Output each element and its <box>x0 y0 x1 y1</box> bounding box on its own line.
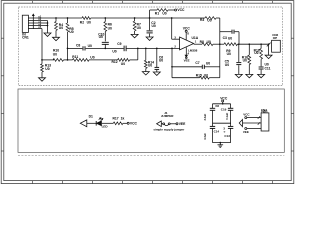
capacitor C9 <box>86 47 124 49</box>
terminal VCC1 <box>175 9 177 11</box>
capacitor C2 <box>149 18 151 30</box>
wire port-led <box>87 122 96 124</box>
svg-text:C14: C14 <box>214 129 220 133</box>
ground G4 <box>39 78 46 81</box>
svg-text:VEE: VEE <box>179 122 186 126</box>
svg-text:U0: U0 <box>207 18 211 22</box>
jumper J1 <box>161 123 163 125</box>
svg-text:U0: U0 <box>204 73 208 77</box>
svg-text:simple supply jumper: simple supply jumper <box>153 127 185 131</box>
svg-text:U0: U0 <box>228 36 232 40</box>
svg-text:VEE: VEE <box>243 130 249 134</box>
connector CN3 <box>261 113 269 131</box>
resistor R10 <box>53 59 64 62</box>
opamp vee pin4 <box>185 47 187 55</box>
opamp vcc pin8 <box>185 30 187 32</box>
svg-text:VCC: VCC <box>130 122 138 126</box>
svg-text:8: 8 <box>187 32 189 36</box>
ground G2 <box>53 37 60 40</box>
resistor R1 <box>157 9 168 12</box>
node pins join <box>47 21 49 34</box>
svg-text:VCC: VCC <box>177 8 185 12</box>
resistor R9 <box>224 43 238 46</box>
resistor R5 <box>67 18 69 23</box>
svg-text:U1A: U1A <box>192 36 199 40</box>
wire2 up <box>137 48 139 60</box>
resistor R15 <box>172 77 200 79</box>
svg-text:U0: U0 <box>225 63 229 67</box>
junction R5 <box>67 17 69 19</box>
resistor R14 <box>145 48 147 60</box>
svg-text:OP: OP <box>273 36 277 40</box>
capacitor C12 <box>210 107 215 109</box>
svg-text:R3: R3 <box>200 18 204 22</box>
svg-text:1: 1 <box>195 40 197 44</box>
resistor R13 <box>41 60 43 64</box>
svg-text:U0: U0 <box>207 40 211 44</box>
svg-text:U0: U0 <box>206 61 210 65</box>
resistor R7 <box>134 18 136 21</box>
svg-text:CN1: CN1 <box>22 36 29 40</box>
svg-text:R15: R15 <box>196 73 202 77</box>
svg-text:U0: U0 <box>112 49 116 53</box>
amplifier section box <box>18 7 282 86</box>
svg-text:C13: C13 <box>224 134 230 138</box>
feedback right <box>219 44 221 77</box>
CN3 bottom pin <box>245 128 247 130</box>
wire pin5 input <box>28 28 42 30</box>
svg-text:C19: C19 <box>221 108 227 112</box>
resistor R17 <box>102 122 114 124</box>
svg-text:JUMPER: JUMPER <box>161 114 174 118</box>
ground G6 <box>153 72 160 75</box>
svg-text:D1: D1 <box>89 114 93 118</box>
capacitor C13 <box>228 125 233 127</box>
capacitor C10 <box>102 41 109 43</box>
capacitor C8 <box>68 47 83 49</box>
junction R4 <box>55 17 57 19</box>
junction R1 <box>149 17 151 19</box>
resistor R2 <box>82 17 91 20</box>
wire pin2 <box>28 20 47 22</box>
svg-text:0.1uF: 0.1uF <box>225 112 229 119</box>
svg-text:D2: D2 <box>216 104 220 108</box>
svg-text:R17: R17 <box>113 117 119 121</box>
plug arrow <box>239 120 242 127</box>
svg-text:U0: U0 <box>59 26 63 30</box>
port P2 <box>157 121 162 127</box>
capacitor C10b <box>228 107 233 109</box>
resistor R4 <box>55 18 57 22</box>
ground G3 <box>131 34 138 37</box>
connector CN1 <box>22 15 28 32</box>
svg-text:C8: C8 <box>76 44 80 48</box>
feedback left <box>171 48 173 77</box>
svg-text:U0: U0 <box>243 59 247 63</box>
junction out <box>219 43 221 45</box>
capacitor C7 <box>172 66 202 68</box>
ground GND reg <box>219 143 221 145</box>
port P1 <box>80 120 87 127</box>
svg-text:U0: U0 <box>90 55 94 59</box>
power section box <box>18 89 284 152</box>
svg-text:U0: U0 <box>137 26 141 30</box>
junction R6 <box>104 17 106 19</box>
ground GC2 <box>146 37 153 40</box>
svg-text:U0: U0 <box>69 30 73 34</box>
svg-text:R11: R11 <box>72 55 78 59</box>
wire R3 down <box>219 18 221 44</box>
wire1 <box>127 47 181 49</box>
svg-text:3.3uF: 3.3uF <box>203 133 207 140</box>
connector CN2 <box>272 40 281 52</box>
svg-text:1k: 1k <box>121 117 125 121</box>
svg-text:U0: U0 <box>227 52 231 56</box>
svg-text:U0: U0 <box>108 26 112 30</box>
svg-text:U0: U0 <box>121 62 125 66</box>
junction w2 <box>64 59 73 61</box>
junction C5 <box>238 43 240 45</box>
reg left wire <box>212 104 214 109</box>
svg-text:U0: U0 <box>99 35 103 39</box>
lower dashed line <box>18 154 284 156</box>
svg-text:C3: C3 <box>223 36 227 40</box>
ground G9 <box>258 74 265 77</box>
svg-text:2: 2 <box>174 45 176 49</box>
svg-text:LED: LED <box>102 124 109 128</box>
CN3 top pin <box>245 117 247 119</box>
svg-text:U0: U0 <box>162 12 166 16</box>
svg-text:C7: C7 <box>195 61 199 65</box>
svg-text:C11: C11 <box>265 66 271 70</box>
reg right wire <box>230 104 232 109</box>
bus line <box>32 15 34 29</box>
junction R7 <box>134 17 136 19</box>
LED D1 <box>95 121 97 126</box>
ground G5 <box>142 72 149 75</box>
wire pin4 <box>28 25 47 27</box>
resistor R6 <box>104 18 106 22</box>
op-amp U1A <box>180 37 194 50</box>
resistor R8 <box>202 43 213 46</box>
reg top wire <box>213 103 231 105</box>
capacitor C3 <box>220 31 232 33</box>
svg-text:C9: C9 <box>117 42 121 46</box>
wire2 start <box>42 59 54 61</box>
resistor R3 <box>205 17 216 20</box>
connector CN2 pin mark <box>267 43 271 47</box>
reg bottom wire <box>213 142 231 144</box>
ground G10 <box>265 55 272 58</box>
svg-text:VEE: VEE <box>184 59 190 63</box>
svg-text:R2: R2 <box>80 20 84 24</box>
terminal VEE1 <box>176 123 178 125</box>
ground G7 <box>235 74 242 77</box>
svg-text:VCC: VCC <box>243 112 250 116</box>
CN2 ground wire <box>268 43 270 45</box>
svg-text:U0: U0 <box>254 51 258 55</box>
svg-text:U0: U0 <box>152 24 156 28</box>
opamp output <box>194 43 202 45</box>
svg-text:VCC: VCC <box>220 97 228 101</box>
svg-text:R8: R8 <box>200 40 204 44</box>
capacitor C6 <box>156 48 158 67</box>
ground G8 <box>246 74 253 77</box>
resistor R18 <box>260 44 262 48</box>
svg-text:U0: U0 <box>53 53 57 57</box>
svg-text:R1: R1 <box>155 11 159 15</box>
capacitor C11 <box>259 66 264 68</box>
reg mid wire <box>213 122 231 124</box>
svg-text:R12: R12 <box>112 60 118 64</box>
wire to R1 <box>149 10 151 18</box>
capacitor C14 <box>210 125 215 127</box>
svg-text:o: o <box>224 130 226 133</box>
ground G1 <box>44 33 51 36</box>
capacitor C5 <box>238 44 240 62</box>
svg-text:U0: U0 <box>87 20 91 24</box>
svg-text:U0: U0 <box>148 64 152 68</box>
wire pin3 opamp <box>171 18 173 39</box>
svg-text:U0: U0 <box>88 44 92 48</box>
resistor R11 <box>73 59 90 62</box>
sheet border frame <box>1 1 294 184</box>
svg-text:LM358: LM358 <box>188 49 198 53</box>
svg-text:U0: U0 <box>159 58 163 62</box>
svg-text:U0: U0 <box>45 67 49 71</box>
junction R18 <box>260 43 262 45</box>
svg-text:PWR: PWR <box>261 110 267 114</box>
junction pin3 <box>171 17 173 19</box>
resistor R16 <box>248 44 250 55</box>
resistor R12 <box>118 59 130 62</box>
wire pin3 <box>28 22 47 24</box>
terminal VCC2 <box>127 122 129 124</box>
wire pin1 rail segment <box>28 17 82 19</box>
junction R16 <box>248 43 250 45</box>
svg-text:VCC: VCC <box>183 26 191 30</box>
svg-text:3.3uF: 3.3uF <box>203 113 207 120</box>
